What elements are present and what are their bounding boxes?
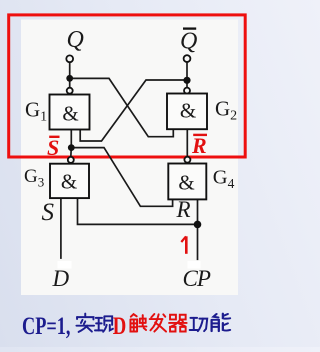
svg-text:&: & [62,102,78,126]
svg-text:S: S [42,199,55,226]
svg-text:D: D [52,266,70,291]
svg-text:D: D [113,311,127,339]
svg-text:&: & [178,171,194,195]
svg-text:Q: Q [180,29,197,55]
svg-text:&: & [61,170,77,194]
svg-text:CP=1,: CP=1, [22,311,71,339]
svg-text:S: S [47,135,59,160]
svg-text:&: & [180,99,196,123]
svg-text:CP: CP [183,266,211,291]
svg-text:R: R [191,133,207,158]
svg-text:R: R [176,197,191,222]
svg-text:Q: Q [67,27,84,53]
